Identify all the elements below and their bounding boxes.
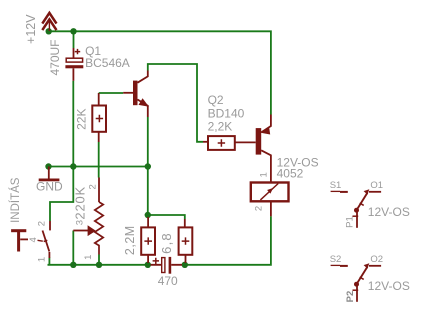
svg-text:+12V: +12V — [24, 14, 38, 44]
svg-text:O2: O2 — [370, 254, 383, 265]
svg-text:12V-OS: 12V-OS — [368, 205, 410, 219]
svg-text:GND: GND — [36, 180, 63, 194]
svg-text:P1: P1 — [345, 216, 356, 228]
svg-text:P2: P2 — [345, 291, 356, 303]
svg-text:Q2: Q2 — [208, 93, 224, 107]
svg-text:1: 1 — [37, 257, 48, 262]
svg-text:2,2M: 2,2M — [123, 225, 137, 255]
svg-text:1: 1 — [83, 255, 94, 260]
svg-text:6,8: 6,8 — [159, 232, 174, 254]
svg-text:O1: O1 — [370, 180, 383, 191]
svg-text:2,2K: 2,2K — [208, 120, 233, 134]
svg-text:3: 3 — [75, 220, 86, 225]
svg-text:4: 4 — [28, 237, 39, 242]
svg-text:2: 2 — [37, 221, 48, 226]
svg-text:22K: 22K — [75, 109, 89, 130]
svg-text:INDÍTÁS: INDÍTÁS — [9, 177, 22, 223]
svg-text:BD140: BD140 — [208, 107, 245, 121]
svg-text:1: 1 — [259, 172, 270, 177]
svg-text:S2: S2 — [330, 254, 342, 265]
svg-text:4052: 4052 — [277, 166, 304, 180]
svg-text:2: 2 — [254, 206, 265, 211]
svg-text:220K: 220K — [73, 186, 88, 220]
svg-text:2: 2 — [88, 184, 99, 189]
svg-text:470: 470 — [158, 274, 178, 288]
svg-text:BC546A: BC546A — [85, 56, 130, 70]
svg-text:470UF: 470UF — [48, 39, 62, 75]
svg-text:S1: S1 — [330, 180, 342, 191]
svg-text:12V-OS: 12V-OS — [368, 279, 410, 293]
